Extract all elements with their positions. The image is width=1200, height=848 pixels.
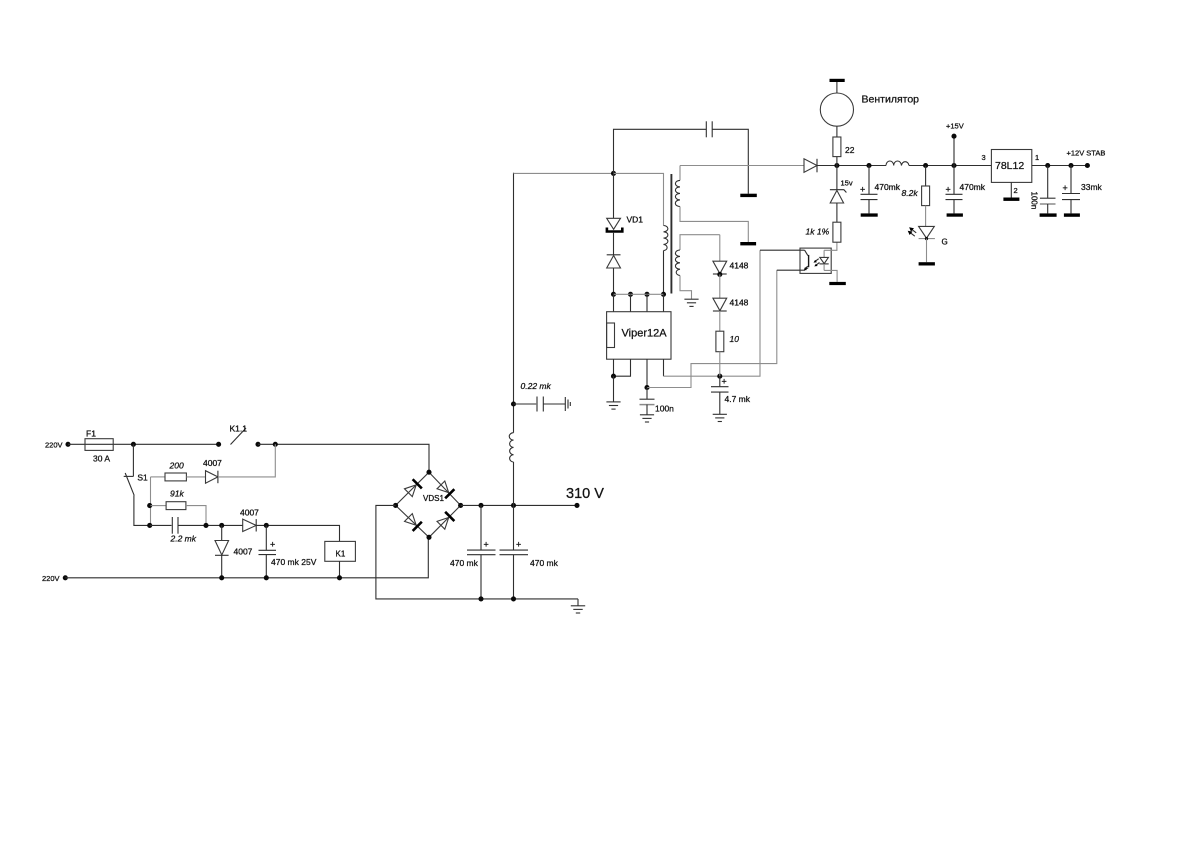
svg-text:VD1: VD1 <box>627 215 644 225</box>
node 91k left junction <box>147 503 152 508</box>
node 220V top terminal <box>65 442 70 447</box>
regulator 78L12 <box>991 150 1031 183</box>
wire choke to 78L12 <box>909 165 991 167</box>
diode 4007 series to relay <box>243 519 257 531</box>
svg-text:310 V: 310 V <box>566 486 604 502</box>
wire 12V output rail <box>1032 165 1088 167</box>
capacitor 470mk A <box>480 505 482 549</box>
svg-text:+: + <box>516 540 521 550</box>
common bar 78L12 gnd <box>1003 198 1019 201</box>
svg-text:G: G <box>942 238 948 247</box>
svg-text:0.22 mk: 0.22 mk <box>521 381 552 391</box>
capacitor 470mk 25V <box>265 525 267 550</box>
capacitor 4.7mk <box>719 376 721 386</box>
inductor filter choke <box>513 462 515 505</box>
svg-text:+: + <box>722 377 727 387</box>
capacitor 100n viper <box>646 388 648 400</box>
node 470mk first <box>866 163 871 168</box>
svg-text:220V: 220V <box>42 574 60 583</box>
transistor opto emitter wire <box>805 266 808 268</box>
node pin1 ground junction <box>611 374 616 379</box>
node pin row 3 <box>644 292 649 297</box>
svg-text:K1: K1 <box>336 549 346 558</box>
wire bridge minus link <box>376 505 578 599</box>
common bar 33mk <box>1064 213 1080 216</box>
node junction top rail / S1 branch <box>131 442 136 447</box>
ground 100n <box>640 414 654 416</box>
common bar opto return <box>829 282 846 285</box>
node bridge right vertex <box>458 503 463 508</box>
wire bottom 220V rail <box>65 537 429 578</box>
resistor 8.2k <box>925 166 927 187</box>
diode 4148 upper <box>719 235 721 262</box>
switch S1 <box>132 444 134 476</box>
wire start network left vertical <box>150 477 152 526</box>
svg-text:4007: 4007 <box>203 458 222 468</box>
svg-text:220V: 220V <box>45 441 63 450</box>
svg-text:1: 1 <box>1035 153 1039 162</box>
fan motor M1 <box>836 126 838 137</box>
node +12V terminal <box>1085 163 1090 168</box>
wire pin1 bottom <box>613 359 615 376</box>
svg-text:22: 22 <box>845 145 855 155</box>
transistor opto base bar <box>808 255 810 267</box>
capacitor 100n out <box>1047 166 1049 199</box>
node 0.22mk tap <box>511 401 516 406</box>
bridge rectifier VDS1 frame <box>396 472 461 537</box>
node 100n out <box>1045 163 1050 168</box>
wire 78L12 pin2 <box>1010 182 1012 197</box>
resistor 1k 1% <box>836 203 838 222</box>
node +15V tap <box>951 163 956 168</box>
node +15V terminal <box>951 134 956 139</box>
node feedback junction <box>644 385 649 390</box>
diode series return <box>613 233 615 255</box>
common bar 100n out <box>1040 213 1057 216</box>
svg-text:470 mk: 470 mk <box>450 558 479 568</box>
capacitor 2.2mk <box>150 524 172 526</box>
svg-text:8.2k: 8.2k <box>902 188 919 198</box>
svg-text:2: 2 <box>1014 186 1018 195</box>
wire HV node to VD1 chain <box>514 172 614 174</box>
wire snubber right to bar <box>712 129 748 193</box>
wire primary feed <box>614 173 664 225</box>
wire vdd to opto collector <box>664 250 761 376</box>
led G indicator <box>925 206 927 227</box>
svg-text:200: 200 <box>169 461 184 471</box>
capacitor 33mk <box>1070 166 1072 194</box>
terminator open end <box>564 397 566 411</box>
svg-text:1k 1%: 1k 1% <box>806 227 830 237</box>
svg-text:Вентилятор: Вентилятор <box>862 94 920 106</box>
wire diode to top rail <box>218 444 275 477</box>
wire +15V stub <box>953 136 955 165</box>
node 8.2k branch <box>923 163 928 168</box>
node 33mk out <box>1068 163 1073 168</box>
bridge diode bottom-right <box>436 512 454 530</box>
node 220V bottom terminal <box>63 575 68 580</box>
node 310V label terminal <box>574 503 579 508</box>
zener 15v <box>836 166 838 190</box>
svg-text:S1: S1 <box>137 473 148 483</box>
svg-text:78L12: 78L12 <box>995 160 1024 172</box>
capacitor 470mk second <box>953 166 955 195</box>
node minus rail cap A <box>478 596 483 601</box>
svg-text:K1.1: K1.1 <box>230 424 248 434</box>
svg-text:30 A: 30 A <box>93 454 110 464</box>
svg-text:4007: 4007 <box>234 547 253 557</box>
wire choke top to HV node <box>513 173 515 404</box>
node snubber tap <box>611 171 616 176</box>
svg-text:100n: 100n <box>655 404 674 414</box>
node K1 bottom <box>337 575 342 580</box>
transformer primary winding <box>664 226 668 251</box>
wire 1k to opto led <box>824 242 837 250</box>
optocoupler U2 box <box>800 248 831 273</box>
capacitor snubber <box>705 121 707 137</box>
svg-text:470mk: 470mk <box>875 182 901 192</box>
node between 4148 diodes <box>717 272 722 277</box>
relay K1 <box>325 541 356 561</box>
node shunt diode on bottom rail <box>219 575 224 580</box>
wire pin2 bottom <box>614 359 631 376</box>
wire R200 to diode <box>186 476 205 478</box>
wire opto led return <box>824 270 837 282</box>
node 470mk bottom <box>264 575 269 580</box>
capacitor 470mk B <box>513 505 515 549</box>
svg-text:+: + <box>484 540 489 550</box>
node bridge left vertex <box>393 503 398 508</box>
bridge diode bottom-left <box>404 513 422 531</box>
node filter cap A top <box>478 503 483 508</box>
svg-text:15v: 15v <box>841 179 853 188</box>
common bar 470mk first <box>861 213 878 216</box>
led opto arrows <box>815 259 819 262</box>
common bar secondary 1 return <box>740 242 756 245</box>
wire secondary 1 to output diode <box>680 165 804 167</box>
resistor 200 <box>165 473 186 481</box>
node cap line left junction <box>147 523 152 528</box>
svg-text:+: + <box>270 540 275 550</box>
svg-text:+: + <box>1063 183 1068 193</box>
common bar snubber return <box>740 194 757 197</box>
svg-text:470 mk: 470 mk <box>530 558 559 568</box>
svg-text:+: + <box>860 185 865 195</box>
wire feedback to opto emitter <box>647 270 777 387</box>
wire snubber left vertical <box>614 129 707 173</box>
ground viper <box>613 376 615 402</box>
diode 4148 lower <box>719 274 721 298</box>
wire pin4 vdd <box>663 359 665 376</box>
node 91k junction on cap line <box>203 523 208 528</box>
svg-text:470mk: 470mk <box>960 182 986 192</box>
svg-text:33mk: 33mk <box>1081 182 1103 192</box>
capacitor 0.22mk <box>514 403 537 405</box>
svg-text:+: + <box>946 185 951 195</box>
transformer secondary 2 <box>680 235 720 250</box>
svg-text:3: 3 <box>982 153 986 162</box>
diode 4007 start branch <box>206 471 218 484</box>
svg-text:4.7 mk: 4.7 mk <box>725 394 751 404</box>
led G arrows <box>911 229 916 233</box>
switch K1.1 <box>216 442 221 447</box>
wire 91k to cap line <box>186 506 206 526</box>
svg-text:4007: 4007 <box>240 508 259 518</box>
svg-text:VDS1: VDS1 <box>423 494 444 503</box>
ground main <box>577 599 579 606</box>
wire output rail to choke <box>817 165 886 167</box>
node vdd cap junction <box>717 374 722 379</box>
transformer secondary 1 <box>679 166 681 181</box>
diode 4007 shunt vertical <box>221 525 223 540</box>
ground 4.7mk <box>713 413 727 415</box>
svg-text:470 mk 25V: 470 mk 25V <box>271 557 317 567</box>
node pin row 2 <box>628 292 633 297</box>
diode VD1 transil <box>613 173 615 218</box>
transistor opto collector wire <box>760 249 805 251</box>
resistor 91k <box>151 505 167 507</box>
svg-text:F1: F1 <box>86 429 96 439</box>
node start-resistor branch reconnect <box>273 442 278 447</box>
wire top 220V rail left segment <box>68 443 219 445</box>
svg-text:91k: 91k <box>170 489 184 499</box>
svg-text:+15V: +15V <box>946 122 964 131</box>
bridge diode top-left <box>404 479 422 497</box>
wire 310V rail <box>461 504 577 506</box>
inductor output choke <box>886 161 909 166</box>
node minus rail cap B <box>511 596 516 601</box>
capacitor 470mk filter1 <box>868 166 870 195</box>
wire cap to diode 4007 <box>178 524 243 526</box>
node 470mk25V junction <box>264 523 269 528</box>
op-amp U1 Viper12A box <box>607 312 671 360</box>
fuse F1 <box>85 439 113 451</box>
common bar fan supply <box>830 79 845 82</box>
node pin row 1 <box>611 292 616 297</box>
svg-text:Viper12A: Viper12A <box>622 328 668 340</box>
resistor 22 fan <box>836 157 838 166</box>
svg-text:+12V STAB: +12V STAB <box>1067 149 1106 158</box>
node bridge top vertex <box>426 470 431 475</box>
wire pin stubs top <box>613 294 615 311</box>
wire pin3 feedback <box>646 359 648 387</box>
resistor 10 <box>719 311 721 331</box>
svg-text:4148: 4148 <box>730 298 749 308</box>
svg-text:2.2 mk: 2.2 mk <box>170 534 197 544</box>
node pin row 4 <box>661 292 666 297</box>
node filter cap B top <box>511 503 516 508</box>
node shunt diode junction <box>219 523 224 528</box>
node bridge bottom vertex <box>426 535 431 540</box>
led opto diode <box>823 250 825 257</box>
node fan branch <box>834 163 839 168</box>
wire S1 to R200 <box>151 476 166 478</box>
wire diode to K1 <box>256 525 339 541</box>
wire top 220V rail right segment <box>258 444 429 472</box>
svg-text:100n: 100n <box>1030 192 1039 210</box>
common bar 470mk second <box>947 213 963 216</box>
bridge diode top-right <box>436 480 454 498</box>
wire S1 bottom to cap line <box>134 495 150 525</box>
transformer core <box>670 174 672 294</box>
common bar led G <box>919 262 935 265</box>
ground secondary 2 <box>684 298 698 300</box>
svg-text:4148: 4148 <box>730 261 749 271</box>
wire pin row bus <box>614 293 664 295</box>
svg-text:10: 10 <box>730 334 740 344</box>
diode output rectifier <box>804 159 817 173</box>
